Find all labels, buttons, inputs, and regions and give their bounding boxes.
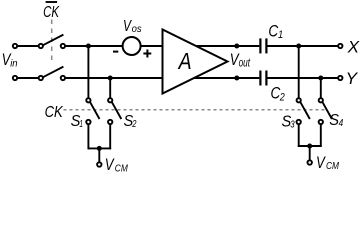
switch S4: wire from bottom rail [320,78,322,98]
input switch pivot circle (bottom) [39,76,43,80]
switch S2 top contact circle [108,98,112,102]
input switch contact circle (top) [61,44,65,48]
junction dot: S4 tap on bottom rail [318,76,323,81]
svg-text:os: os [132,23,143,35]
switch S3 arm [301,102,310,119]
input switch contact circle (bottom) [61,76,65,80]
svg-text:CK: CK [45,104,64,121]
VCM terminal circle (right) [308,160,312,164]
input switch arm (bottom) [43,67,63,78]
svg-text:2: 2 [132,118,137,130]
junction dot: Vout bottom node [234,76,239,81]
capacitor C2 plates [259,71,261,86]
svg-text:CM: CM [115,162,128,174]
switch S4 bottom contact circle [319,120,323,124]
wire: S3 bottom to VCM bar [298,125,300,147]
plus sign of Vos [143,53,151,55]
wire: op-amp bottom output [194,77,259,79]
junction dot VCM (left) [97,146,102,151]
switch S1: wire from top rail [87,46,89,98]
wire: op-amp top output [196,45,259,47]
svg-text:in: in [10,58,18,70]
svg-text:CM: CM [326,160,339,172]
svg-text:V: V [105,155,115,174]
junction dot: Vout top node [234,44,239,49]
input switch arm (top) [43,35,63,46]
svg-text:Y: Y [346,69,359,88]
switch S1 bottom contact circle [86,120,90,124]
minus sign of Vos [113,51,118,53]
svg-text:CK: CK [43,4,60,21]
svg-text:4: 4 [339,117,344,129]
switch S2 bottom contact circle [108,120,112,124]
wire: stub to VCM terminal (left) [98,148,100,161]
svg-text:1: 1 [79,118,83,130]
wire: VCM bar (left) [88,147,112,149]
switch S1 arm [90,102,99,119]
wire: C1 to X terminal [268,45,338,47]
wire: bottom rail to op-amp [66,77,163,79]
svg-text:V: V [316,153,326,172]
switch S1 top contact circle [86,98,90,102]
terminal Y circle [338,76,342,80]
switch S4 arm [323,102,332,119]
terminal X circle [338,44,342,48]
wire: stub to VCM terminal (right) [309,146,311,160]
switch S3 bottom contact circle [297,120,301,124]
wire: C2 to Y terminal [268,77,338,79]
op-amp A triangle [163,30,228,94]
switch S2 arm [112,102,121,119]
CKbar dashed control line (vertical) [51,20,53,65]
wire: top contact to Vos source [66,45,122,47]
svg-text:3: 3 [290,119,295,131]
wire: bottom input terminal to switch pivot [18,77,38,79]
input terminal circle (bottom) [13,76,17,80]
switch S3 top contact circle [297,98,301,102]
junction dot: S1 tap on top rail [86,44,91,49]
capacitor C1 plates [259,38,261,53]
svg-text:2: 2 [279,92,285,104]
wire: S4 bottom to VCM bar [320,125,322,147]
wire: S1 bottom to VCM bar [87,125,89,150]
svg-text:A: A [177,48,192,74]
switch S4 top contact circle [319,98,323,102]
wire: VCM bar (right) [298,145,322,147]
overbar of CKbar [46,1,58,3]
junction dot VCM (right) [307,144,312,149]
junction dot: S3 tap on top rail [296,44,301,49]
input switch pivot circle (top) [39,44,43,48]
switch S3: wire from top rail [298,46,300,98]
switch S2: wire from bottom rail [109,78,111,98]
wire: top input terminal to switch pivot [18,45,38,47]
junction dot: S2 tap on bottom rail [108,76,113,81]
svg-text:X: X [347,37,360,56]
voltage source Vos circle [123,37,141,55]
input terminal circle (top) [13,44,17,48]
wire: Vos to op-amp [141,45,162,47]
svg-text:out: out [239,58,251,70]
CK dashed control line (horizontal) [64,109,328,111]
svg-text:1: 1 [278,29,283,41]
VCM terminal circle (left) [97,162,101,166]
wire: S2 bottom to VCM bar [109,125,111,150]
